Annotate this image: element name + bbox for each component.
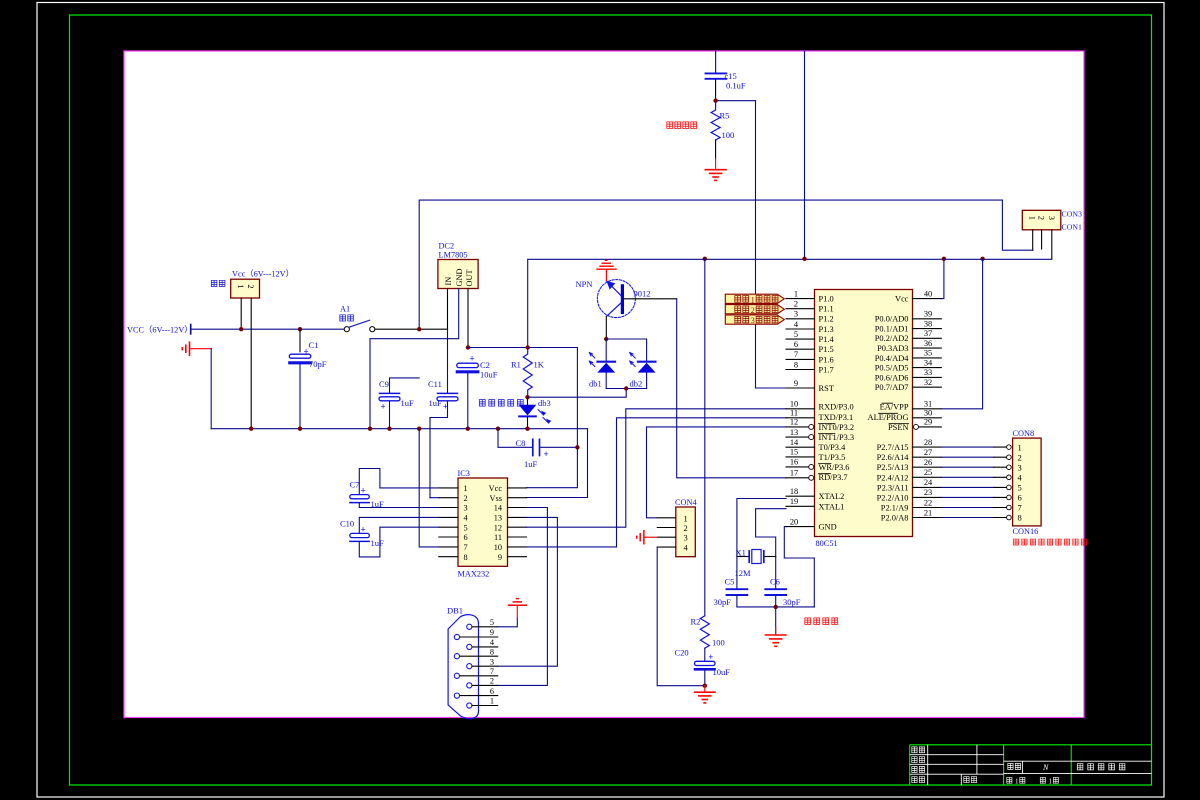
wire C11 branch to MAX232 pin2 xyxy=(430,497,439,499)
DB1 pin lines xyxy=(460,627,498,706)
resistor R5 xyxy=(711,101,720,140)
svg-text:LM7805: LM7805 xyxy=(439,251,468,260)
svg-text:WR/P3.6: WR/P3.6 xyxy=(819,463,850,472)
svg-text:db2: db2 xyxy=(630,379,643,389)
flag 舵机2控制口 xyxy=(725,305,784,315)
label 开关 xyxy=(340,315,354,321)
wire ground drop at x=211 xyxy=(210,349,212,429)
svg-text:P2.5/A13: P2.5/A13 xyxy=(877,463,909,472)
svg-text:+: + xyxy=(470,354,475,364)
svg-text:C7: C7 xyxy=(350,480,360,490)
node OUT/C2 xyxy=(466,345,470,349)
svg-text:P2.7/A15: P2.7/A15 xyxy=(877,443,909,452)
svg-text:6: 6 xyxy=(1018,493,1022,503)
svg-text:2: 2 xyxy=(246,284,256,288)
svg-text:OUT: OUT xyxy=(465,269,474,286)
svg-text:1: 1 xyxy=(684,513,688,523)
svg-text:3: 3 xyxy=(1018,462,1022,472)
wire 5V to MAX232 Vcc xyxy=(527,348,578,488)
svg-text:17: 17 xyxy=(790,469,798,478)
annotation 红外遥控控制信号口 xyxy=(1013,539,1086,545)
80C51 left pin numbers xyxy=(790,289,799,526)
svg-text:3: 3 xyxy=(490,657,494,666)
80C51 GND stub xyxy=(786,526,815,528)
svg-text:1: 1 xyxy=(1018,442,1022,452)
connector CON4 xyxy=(676,507,696,557)
80C51 WR pin circle xyxy=(809,464,814,469)
rotated ground at VCC input xyxy=(182,342,211,355)
wire 5V rail to R2 xyxy=(704,259,706,616)
svg-text:2: 2 xyxy=(794,300,798,309)
node ground rail x=300 xyxy=(298,427,302,431)
svg-text:23: 23 xyxy=(924,488,932,497)
svg-text:NPN: NPN xyxy=(576,279,593,289)
title block row label 设计 xyxy=(912,747,925,753)
80C51 INT0 pin circle xyxy=(809,424,814,429)
node 5V rail / EA riser xyxy=(980,257,984,261)
svg-text:38: 38 xyxy=(924,319,932,328)
svg-text:P1.0: P1.0 xyxy=(819,295,834,304)
svg-text:db3: db3 xyxy=(538,398,551,408)
svg-text:N: N xyxy=(1042,763,1049,772)
svg-text:P1.2: P1.2 xyxy=(819,315,834,324)
svg-text:P1.3: P1.3 xyxy=(819,325,834,334)
svg-text:C5: C5 xyxy=(725,577,735,587)
svg-text:3: 3 xyxy=(464,504,468,513)
title block row label 描图 xyxy=(912,777,925,783)
svg-text:1uF: 1uF xyxy=(429,398,443,408)
MCU U1 80C51 body xyxy=(815,290,913,537)
svg-text:12: 12 xyxy=(790,418,798,427)
connector DB1 shell xyxy=(448,615,478,719)
svg-text:29: 29 xyxy=(924,418,932,427)
svg-text:P0.0/AD0: P0.0/AD0 xyxy=(875,315,909,324)
svg-text:5: 5 xyxy=(1018,483,1022,493)
svg-text:db1: db1 xyxy=(589,379,602,389)
svg-text:37: 37 xyxy=(924,329,932,338)
title block outer green table xyxy=(910,745,1152,785)
connector 电源 (power) xyxy=(231,279,260,298)
svg-text:6: 6 xyxy=(490,687,494,696)
capacitor C7 xyxy=(350,469,439,508)
svg-text:+: + xyxy=(361,486,366,496)
svg-text:10: 10 xyxy=(790,400,798,409)
svg-text:P2.0/A8: P2.0/A8 xyxy=(881,514,909,523)
wire R1 bottom to db pair xyxy=(528,389,627,398)
svg-text:36: 36 xyxy=(924,339,932,348)
wire MAX232 pin12 to 80C51 RXD xyxy=(527,409,787,527)
svg-text:9: 9 xyxy=(498,553,502,562)
wire sheet top to VCC rail node (x=804.5) xyxy=(804,52,806,259)
inverted ground above NPN emitter xyxy=(597,260,616,280)
switch A1 xyxy=(344,320,375,332)
svg-text:28: 28 xyxy=(924,438,932,447)
wire C8 branch from ground rail xyxy=(498,429,577,448)
svg-text:31: 31 xyxy=(924,400,932,409)
svg-text:+: + xyxy=(544,449,549,459)
svg-text:25: 25 xyxy=(924,468,932,477)
capacitor C15 xyxy=(706,73,727,98)
node ground rail x=389.5 xyxy=(387,427,391,431)
inverted ground above DB1 pin5 xyxy=(509,599,527,619)
svg-text:TXD/P3.1: TXD/P3.1 xyxy=(819,413,854,422)
svg-text:15: 15 xyxy=(790,448,798,457)
wire collector node to db1/db2 tops xyxy=(606,339,646,361)
flag 舵机3控制口 xyxy=(725,315,784,325)
MAX232 right pin stubs xyxy=(508,488,527,557)
LED db2 xyxy=(630,353,656,389)
svg-text:RD/P3.7: RD/P3.7 xyxy=(819,473,848,482)
svg-text:16: 16 xyxy=(790,458,798,467)
svg-text:9012: 9012 xyxy=(634,289,651,299)
svg-text:P2.4/A12: P2.4/A12 xyxy=(877,473,909,482)
ground below R5 xyxy=(705,159,726,181)
svg-text:CON16: CON16 xyxy=(1013,527,1039,536)
svg-text:Vss: Vss xyxy=(490,494,502,503)
node ground rail x=527.5 xyxy=(525,427,529,431)
svg-text:10uF: 10uF xyxy=(480,370,498,380)
svg-text:70pF: 70pF xyxy=(309,359,327,369)
ground below C20 xyxy=(695,686,715,703)
svg-text:20: 20 xyxy=(790,517,798,526)
svg-text:3: 3 xyxy=(1047,216,1057,220)
svg-text:+: + xyxy=(443,402,448,412)
node ground rail x=419 xyxy=(417,427,421,431)
svg-text:CON3: CON3 xyxy=(1062,210,1082,219)
wire DB1 pin5 to ground xyxy=(498,618,518,627)
80C51 P3 stubs xyxy=(786,409,815,478)
title block cell 图别 xyxy=(1008,763,1021,769)
80C51 RST stub xyxy=(786,387,815,389)
capacitor C20 xyxy=(695,648,716,686)
flag 舵机1控制口 xyxy=(725,294,784,304)
svg-text:P0.4/AD4: P0.4/AD4 xyxy=(875,354,910,363)
svg-text:GND: GND xyxy=(455,269,464,287)
svg-text:1uF: 1uF xyxy=(401,398,415,408)
svg-text:13: 13 xyxy=(790,428,798,437)
svg-text:R5: R5 xyxy=(720,111,730,121)
svg-text:8: 8 xyxy=(490,647,494,656)
svg-text:P1.4: P1.4 xyxy=(819,335,835,344)
svg-text:T1/P3.5: T1/P3.5 xyxy=(819,453,846,462)
svg-text:C11: C11 xyxy=(428,379,442,389)
node R1 bottom xyxy=(525,395,529,399)
svg-text:1: 1 xyxy=(751,295,755,304)
svg-text:Vcc: Vcc xyxy=(489,484,503,493)
MAX232 left pin stubs xyxy=(439,488,458,557)
capacitor C5 xyxy=(727,557,748,607)
svg-text:P0.5/AD5: P0.5/AD5 xyxy=(875,364,909,373)
svg-text:P0.1/AD1: P0.1/AD1 xyxy=(875,325,909,334)
电源 pin1 wire xyxy=(240,298,242,329)
node switched VCC xyxy=(417,327,421,331)
svg-text:10: 10 xyxy=(494,543,502,552)
ground below crystal xyxy=(766,607,786,646)
svg-text:32: 32 xyxy=(924,378,932,387)
svg-text:R2: R2 xyxy=(691,617,701,627)
svg-text:0.1uF: 0.1uF xyxy=(726,81,746,91)
svg-text:1uF: 1uF xyxy=(371,499,385,509)
svg-text:9: 9 xyxy=(490,628,494,637)
svg-text:P1.5: P1.5 xyxy=(819,345,834,354)
node C20/CON4 ground xyxy=(703,684,707,688)
svg-text:C8: C8 xyxy=(516,438,526,448)
wire GND pin20 path xyxy=(784,527,814,607)
CON4 pin stubs xyxy=(657,518,676,547)
svg-text:14: 14 xyxy=(790,438,799,447)
node C1/VCC rail xyxy=(298,327,302,331)
wire ground rail to MAX232 Vss xyxy=(527,429,588,498)
svg-text:RXD/P3.0: RXD/P3.0 xyxy=(819,403,854,412)
svg-text:9: 9 xyxy=(794,379,798,388)
DB1 pin numbers xyxy=(490,618,495,706)
svg-text:13: 13 xyxy=(494,514,502,523)
svg-text:C2: C2 xyxy=(480,360,490,370)
LM7805 OUT pin wire xyxy=(467,289,469,348)
svg-text:C1: C1 xyxy=(309,340,319,350)
CON1 pin3 wire xyxy=(1051,230,1053,259)
80C51 RD pin circle xyxy=(809,475,814,480)
svg-text:C6: C6 xyxy=(770,577,780,587)
svg-text:P0.7/AD7: P0.7/AD7 xyxy=(875,383,909,392)
svg-text:26: 26 xyxy=(924,458,932,467)
svg-text:5: 5 xyxy=(794,330,798,339)
svg-text:7: 7 xyxy=(1018,503,1022,513)
wire XTAL2 to crystal left xyxy=(737,499,786,557)
svg-text:RST: RST xyxy=(819,384,834,393)
svg-text:CON4: CON4 xyxy=(675,498,698,507)
DB1 pin circles right column xyxy=(467,624,472,708)
80C51 overlines right xyxy=(879,403,909,423)
transistor Q NPN 9012 xyxy=(597,280,635,339)
svg-text:XTAL2: XTAL2 xyxy=(819,492,845,501)
wire R5 to ground xyxy=(715,140,717,159)
svg-text:+: + xyxy=(708,652,713,662)
svg-text:1uF: 1uF xyxy=(524,459,538,469)
svg-text:1: 1 xyxy=(1015,777,1019,785)
svg-text:2: 2 xyxy=(1037,216,1047,220)
title block drawing name 系统电路图 xyxy=(1077,764,1125,770)
node 5V rail / top riser xyxy=(802,257,806,261)
svg-text:18: 18 xyxy=(790,487,798,496)
title block row label 审核 xyxy=(912,766,925,772)
white schematic sheet with magenta border xyxy=(124,51,1084,718)
node db join xyxy=(624,386,628,390)
annotation 晶振电路 xyxy=(805,618,838,625)
svg-text:GND: GND xyxy=(819,523,837,532)
node 5V rail / 80C51 Vcc xyxy=(942,257,946,261)
wire junction to RST riser xyxy=(716,99,756,101)
port symbol VCC input tick xyxy=(190,325,192,334)
LED db3 xyxy=(519,397,551,429)
CON1 pin1 wire xyxy=(1032,230,1034,250)
resistor R1 xyxy=(523,348,532,397)
svg-text:DC2: DC2 xyxy=(439,242,455,251)
svg-text:40: 40 xyxy=(924,289,932,298)
电源 pin2 wire to ground rail xyxy=(250,298,252,429)
wire db1/db2 cathodes join xyxy=(606,388,646,390)
svg-text:6: 6 xyxy=(464,533,468,542)
svg-text:24: 24 xyxy=(924,478,933,487)
wire ground rail to MAX232 pin7 xyxy=(419,429,439,547)
wire XTAL1 to crystal right xyxy=(756,509,786,557)
svg-text:CON8: CON8 xyxy=(1013,429,1035,438)
svg-text:1: 1 xyxy=(1028,216,1038,220)
label 电源 xyxy=(211,280,225,286)
capacitor C8 xyxy=(533,439,549,459)
svg-text:27: 27 xyxy=(924,448,932,457)
svg-text:1: 1 xyxy=(1049,777,1053,785)
LM7805 GND pin wire xyxy=(370,289,459,429)
svg-text:6: 6 xyxy=(794,340,798,349)
svg-text:P1.7: P1.7 xyxy=(819,365,834,374)
wires 80C51 P2 port to CON8 xyxy=(941,447,994,517)
svg-text:P1.6: P1.6 xyxy=(819,355,834,364)
svg-text:P0.2/AD2: P0.2/AD2 xyxy=(875,334,909,343)
node pin1/VCC rail xyxy=(239,327,243,331)
node ground rail x=498 xyxy=(496,427,500,431)
svg-text:10uF: 10uF xyxy=(713,667,731,677)
capacitor C10 xyxy=(350,517,439,557)
svg-text:A1: A1 xyxy=(340,305,350,314)
resistor R2 xyxy=(700,616,709,648)
svg-text:7: 7 xyxy=(794,350,798,359)
LM7805 IN pin wire xyxy=(447,289,449,330)
LED db1 xyxy=(589,353,615,389)
svg-text:T0/P3.4: T0/P3.4 xyxy=(819,443,847,452)
wire MAX232 pin13 to DB1 pin3 xyxy=(498,517,558,666)
svg-text:1: 1 xyxy=(490,697,494,706)
svg-text:INT1/P3.3: INT1/P3.3 xyxy=(819,433,855,442)
wire VCC input rail xyxy=(191,328,346,330)
80C51 right pin names xyxy=(868,295,910,523)
svg-text:30pF: 30pF xyxy=(783,597,801,607)
title block row label 校核 xyxy=(912,757,925,763)
crystal X1 xyxy=(737,550,776,564)
svg-text:7: 7 xyxy=(464,543,468,552)
capacitor C11 xyxy=(430,329,458,498)
svg-text:c15: c15 xyxy=(725,71,737,81)
svg-text:1: 1 xyxy=(236,284,246,288)
svg-text:2: 2 xyxy=(684,523,688,533)
svg-text:C20: C20 xyxy=(675,648,689,658)
svg-text:21: 21 xyxy=(924,508,932,517)
label 发光二极管 xyxy=(479,400,523,407)
svg-text:P1.1: P1.1 xyxy=(819,305,834,314)
connector CON8 body xyxy=(1013,438,1042,526)
wire CON4 pin1 to 80C51 INT0 xyxy=(647,427,787,518)
svg-text:19: 19 xyxy=(790,497,798,506)
svg-text:35: 35 xyxy=(924,349,932,358)
svg-text:1uF: 1uF xyxy=(371,538,385,548)
80C51 right pin numbers xyxy=(924,289,933,517)
wire 80C51 Vcc pin40 riser xyxy=(941,259,944,299)
svg-text:30: 30 xyxy=(924,409,932,418)
svg-text:11: 11 xyxy=(494,533,502,542)
CON8 pin circles xyxy=(1007,445,1012,520)
80C51 overlines left xyxy=(819,423,836,473)
wire 80C51 EA/VPP riser xyxy=(941,259,982,409)
svg-text:DB1: DB1 xyxy=(447,606,463,616)
80C51 XTAL stubs xyxy=(786,496,815,506)
svg-text:3: 3 xyxy=(684,533,688,543)
svg-text:12: 12 xyxy=(494,523,502,532)
svg-text:1K: 1K xyxy=(534,360,545,370)
svg-text:PSEN: PSEN xyxy=(888,423,908,432)
ground rail y=428.7 xyxy=(211,428,587,430)
wire NPN base to RD/P3.7 xyxy=(624,298,677,300)
svg-text:100: 100 xyxy=(712,638,725,648)
svg-text:Vcc（6V---12V）: Vcc（6V---12V） xyxy=(232,270,294,279)
DB1 pin circles left column xyxy=(454,634,459,698)
wire RST riser (to 80C51 pin9) xyxy=(756,101,787,388)
node crystal ground xyxy=(774,605,778,609)
svg-text:CON1: CON1 xyxy=(1062,223,1082,232)
svg-text:IN: IN xyxy=(444,277,453,286)
connector CON3/CON1 xyxy=(1022,210,1061,230)
svg-text:39: 39 xyxy=(924,310,932,319)
svg-text:2: 2 xyxy=(490,677,494,686)
wire CON4 pin4 to ground node xyxy=(657,547,705,686)
wire MAX232 pin14 to DB1 pin2 xyxy=(498,508,548,686)
svg-text:2: 2 xyxy=(1018,452,1022,462)
title block sheet count 共1张 第1张 xyxy=(1007,777,1059,785)
svg-text:5: 5 xyxy=(464,523,468,532)
svg-text:8: 8 xyxy=(464,553,468,562)
wire switch to LM7805 IN xyxy=(375,328,448,330)
wire 5V rail OUT to riser xyxy=(468,259,1052,347)
node R1 top xyxy=(526,345,530,349)
svg-text:2: 2 xyxy=(751,306,755,315)
svg-text:C9: C9 xyxy=(379,379,389,389)
svg-text:5: 5 xyxy=(490,618,494,627)
svg-text:INT0/P3.2: INT0/P3.2 xyxy=(819,423,855,432)
svg-text:P0.3AD3: P0.3AD3 xyxy=(877,344,908,353)
svg-text:80C51: 80C51 xyxy=(816,539,838,548)
node collector/db split xyxy=(604,337,608,341)
regulator DC2 LM7805 xyxy=(438,260,478,289)
title block white grid lines xyxy=(910,745,1152,785)
svg-text:VCC（6V---12V）: VCC（6V---12V） xyxy=(127,326,193,335)
svg-text:C10: C10 xyxy=(340,518,354,528)
svg-text:+: + xyxy=(361,524,366,534)
wire crystal ground rail xyxy=(737,606,814,608)
svg-text:ALE/PROG: ALE/PROG xyxy=(868,413,909,422)
svg-text:R1: R1 xyxy=(511,360,521,370)
IC3 MAX232 body xyxy=(458,478,508,566)
svg-text:14: 14 xyxy=(494,504,503,513)
annotation 复位电路 xyxy=(667,122,697,129)
80C51 PSEN pin circle xyxy=(914,424,919,429)
svg-text:22: 22 xyxy=(924,498,932,507)
node ground rail x=251 xyxy=(249,427,253,431)
svg-text:IC3: IC3 xyxy=(458,469,470,478)
capacitor C9 xyxy=(379,378,419,429)
capacitor C2 xyxy=(457,354,479,429)
wire switched VCC top distribution (y=200) xyxy=(419,200,1032,329)
svg-text:30pF: 30pF xyxy=(714,597,732,607)
CON1 pin2 stub xyxy=(1041,230,1043,249)
svg-text:100: 100 xyxy=(722,130,735,140)
svg-text:P2.6/A14: P2.6/A14 xyxy=(877,453,910,462)
node 5V rail / R2 drop xyxy=(703,257,707,261)
svg-text:P2.3/A11: P2.3/A11 xyxy=(877,483,909,492)
svg-text:8: 8 xyxy=(794,360,798,369)
title block cell 学号 xyxy=(964,777,977,783)
svg-text:XTAL1: XTAL1 xyxy=(819,502,845,511)
svg-text:2: 2 xyxy=(464,494,468,503)
node junction C15/R5 xyxy=(713,99,717,103)
